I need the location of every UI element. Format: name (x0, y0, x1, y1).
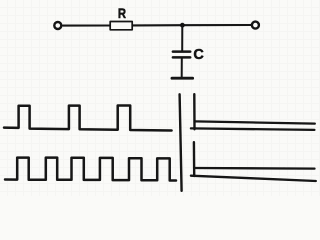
wire node A to output terminal (182, 24, 251, 26)
divider line lower segment (right vertical bar, bottom) (193, 142, 196, 176)
ground bar (172, 77, 193, 80)
input waveform trace, high frequency pulses (bottom left) (5, 158, 176, 181)
output trace upper line (top right) (195, 121, 315, 123)
output trace lower line (bottom right) (191, 176, 316, 181)
input terminal (open circle) (54, 22, 61, 29)
input waveform trace, low frequency pulses (top left) (4, 106, 172, 131)
node A junction dot (180, 23, 185, 28)
divider line upper segment (right vertical bar, top) (193, 94, 196, 129)
wire node A down to capacitor (181, 25, 183, 50)
wire capacitor to ground (181, 59, 183, 77)
svg-text:R: R (118, 6, 126, 21)
wire input terminal to resistor (63, 24, 110, 26)
capacitor C bottom plate (173, 56, 190, 59)
output trace upper line (bottom right) (195, 167, 315, 170)
capacitor C top plate (173, 50, 190, 53)
svg-text:C: C (193, 47, 204, 63)
resistor R (110, 22, 132, 30)
output trace lower line (top right) (191, 128, 315, 130)
divider line (left vertical bar of filter block) (180, 94, 182, 191)
output terminal (open circle) (252, 22, 259, 29)
wire resistor to node A (133, 24, 183, 26)
